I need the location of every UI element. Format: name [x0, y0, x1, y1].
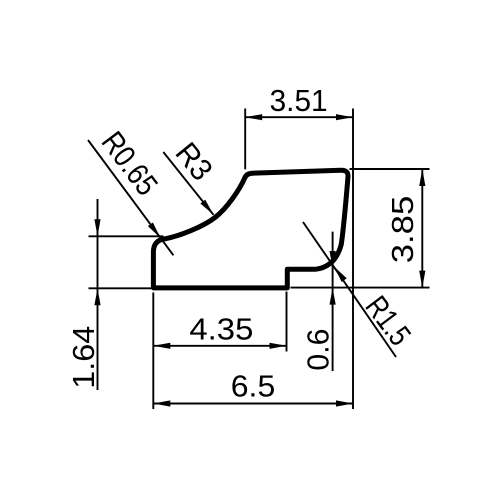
arrow 1.64 bottom (pointing up) [94, 288, 100, 305]
arrow 0.6 top (pointing down) [330, 251, 336, 268]
svg-text:1.64: 1.64 [66, 326, 101, 389]
arrow R1.5 (pointing up-left at fillet) [332, 265, 347, 282]
extension line bottom right horizontal [291, 287, 430, 289]
svg-text:4.35: 4.35 [189, 312, 253, 347]
dimension line 0.6 [332, 232, 334, 371]
extension line 3.51 left [244, 109, 246, 170]
svg-text:3.85: 3.85 [385, 196, 420, 264]
extension line 4.35 right vertical [286, 292, 288, 352]
arrow R0.65 (pointing down-right at fillet) [148, 222, 163, 239]
dimension line 1.64 [97, 199, 99, 390]
dimension line 3.85 [421, 169, 423, 288]
arrow 4.35 left [153, 343, 170, 349]
svg-text:0.6: 0.6 [301, 329, 336, 371]
dimension line 3.51 [245, 116, 353, 118]
arrow 3.85 top [419, 169, 425, 186]
arrow R3 (pointing down-right at curve) [200, 200, 216, 217]
dimension line 4.35 [153, 345, 286, 347]
arrow 3.51 left [245, 114, 262, 120]
arrow 4.35 right [270, 343, 287, 349]
leader R3 [163, 152, 213, 215]
dimension line 6.5 [153, 403, 353, 405]
arrow 3.51 right [336, 114, 353, 120]
extension line 1.64 top [89, 235, 164, 237]
arrow 6.5 left [153, 400, 170, 406]
arrow 6.5 right [336, 400, 353, 406]
extension line 1.64 bottom [89, 287, 152, 289]
extension line right vertical (3.51 / 6.5) [352, 109, 354, 410]
extension line bottom left vertical [152, 293, 154, 410]
svg-text:6.5: 6.5 [231, 369, 276, 404]
arrow 3.85 bottom [419, 271, 425, 288]
svg-text:3.51: 3.51 [270, 83, 328, 118]
leader R0.65 [88, 140, 173, 255]
profile outline [153, 170, 348, 288]
arrow 0.6 bottom (pointing up) [330, 288, 336, 305]
arrow 1.64 top (pointing down) [94, 219, 100, 236]
extension line 3.85 top [350, 168, 430, 170]
leader R1.5 [303, 222, 396, 357]
